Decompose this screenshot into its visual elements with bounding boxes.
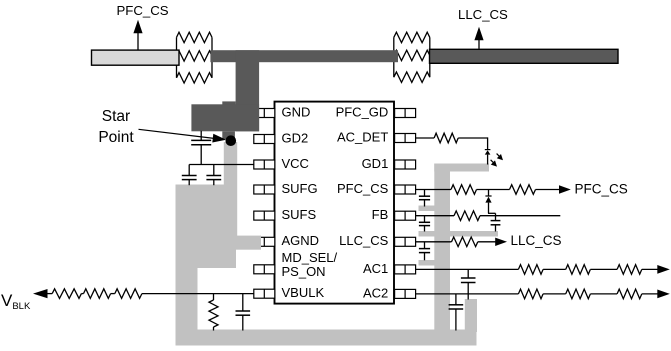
PFC GND pour top bar bbox=[210, 50, 398, 62]
wire R3-R4 bbox=[81, 293, 83, 295]
pin box VCC (left pin 3) bbox=[254, 160, 275, 169]
PFC GND pour block bbox=[191, 104, 259, 131]
wire node A down-jog bbox=[488, 203, 496, 221]
resistor group R2 (3x parallel LLC shunt) bbox=[394, 32, 430, 82]
wire VCC rail bbox=[189, 164, 254, 166]
wire + arrow to V_BLK bbox=[33, 289, 52, 298]
capacitor C10 (AC2 filter) bbox=[449, 294, 464, 331]
svg-text:GND: GND bbox=[282, 104, 311, 119]
resistor R11 (LLC_CS) bbox=[452, 237, 478, 247]
label PFC_CS (top) bbox=[117, 3, 169, 18]
pin label GD1 bbox=[362, 156, 389, 171]
svg-text:SUFG: SUFG bbox=[282, 181, 318, 196]
resistor R3 (VBULK divider) bbox=[52, 289, 81, 299]
wire R8 to node A bbox=[477, 189, 510, 191]
svg-text:GD1: GD1 bbox=[362, 156, 389, 171]
wire + arrow PFC_CS out bbox=[536, 185, 571, 193]
pin box MD (left pin 7) bbox=[254, 265, 275, 274]
pin label PFC_GD bbox=[336, 104, 389, 119]
svg-text:LLC_CS: LLC_CS bbox=[339, 233, 388, 248]
capacitor C7 (FB filter) bbox=[419, 216, 430, 232]
PFC GND pour step bbox=[222, 101, 235, 110]
diode D2 (clamp) bbox=[485, 190, 491, 203]
AGND plane top-right arm bbox=[434, 164, 489, 172]
resistor R9 (PFC_CS out) bbox=[510, 185, 536, 195]
capacitor C2 (VCC decoupling) bbox=[182, 165, 197, 186]
pin label VBULK bbox=[282, 285, 325, 300]
resistor R16 (AC2) bbox=[566, 289, 591, 299]
wire VBULK to pin bbox=[142, 293, 254, 295]
PFC shunt trace bar (left) bbox=[92, 50, 180, 65]
pin label GND bbox=[282, 104, 311, 119]
label LLC_CS (top) bbox=[458, 7, 508, 22]
capacitor C5 (PFC_CS filter) bbox=[419, 190, 430, 207]
svg-text:GD2: GD2 bbox=[282, 130, 309, 145]
pin label SUFG bbox=[282, 181, 318, 196]
label LLC_CS (right) bbox=[511, 233, 562, 248]
LED D1 (opto photodiode) bbox=[485, 150, 491, 165]
node star point junction dot bbox=[226, 135, 237, 146]
pin box GND (left pin 1) bbox=[254, 109, 275, 118]
svg-text:PFC_GD: PFC_GD bbox=[336, 104, 389, 119]
wire + arrow LLC_CS out bbox=[478, 238, 507, 246]
capacitor C4 (VBULK filter) bbox=[236, 294, 251, 331]
resistor R14 (AC1) bbox=[617, 265, 642, 275]
AGND plane arm to AGND pin bbox=[223, 236, 261, 250]
light arrows at D1 bbox=[491, 154, 503, 167]
resistor R8 (PFC_CS) bbox=[451, 185, 477, 195]
leader arrow to star point bbox=[139, 129, 227, 142]
pin label SUFS bbox=[282, 207, 317, 222]
wire LLC_CS pin bbox=[416, 241, 452, 243]
svg-text:PS_ON: PS_ON bbox=[282, 264, 326, 279]
resistor R13 (AC1) bbox=[566, 265, 591, 275]
pin box PFC_CS (right pin 13) bbox=[395, 185, 416, 194]
label Star Point bbox=[98, 108, 134, 146]
svg-text:AC1: AC1 bbox=[363, 261, 388, 276]
wire AC_DET to opto bbox=[458, 137, 487, 149]
pin box AC2 (right pin 9) bbox=[395, 289, 416, 298]
pin box VBULK (left pin 8) bbox=[254, 289, 275, 298]
AGND stub at LLC_CS cap bbox=[419, 260, 436, 266]
resistor R12 (AC1) bbox=[518, 265, 543, 275]
pin box SUFS (left pin 5) bbox=[254, 211, 275, 220]
svg-text:VCC: VCC bbox=[282, 156, 309, 171]
label PFC_CS (right) bbox=[575, 181, 628, 196]
AGND plane main pour bbox=[176, 185, 237, 269]
pin box AC_DET (right pin 15) bbox=[395, 134, 416, 143]
capacitor C8 (LLC_CS filter) bbox=[419, 242, 430, 260]
wire PFC_CS pin bbox=[416, 189, 451, 191]
AGND stub at PFC_CS cap bbox=[419, 206, 436, 212]
pin box GD2 (left pin 2) bbox=[254, 135, 275, 144]
pin box SUFG (left pin 4) bbox=[254, 185, 275, 194]
svg-text:LLC_CS: LLC_CS bbox=[458, 7, 508, 22]
pin label LLC_CS bbox=[339, 233, 388, 248]
svg-text:Point: Point bbox=[98, 129, 134, 146]
capacitor C3 (VCC decoupling) bbox=[206, 165, 221, 186]
svg-text:AC2: AC2 bbox=[363, 285, 388, 300]
pin box PFC_GD (right pin 16) bbox=[395, 109, 416, 118]
pin box FB (right pin 12) bbox=[395, 211, 416, 220]
resistor R17 (AC2) bbox=[617, 289, 642, 299]
pin box GD1 (right pin 14) bbox=[395, 160, 416, 169]
svg-text:MD_SEL/: MD_SEL/ bbox=[282, 250, 338, 265]
PFC GND pour vertical bar bbox=[236, 50, 260, 131]
pin label GD2 bbox=[282, 130, 309, 145]
pin label AC1 bbox=[363, 261, 388, 276]
svg-text:Star: Star bbox=[102, 108, 130, 125]
svg-text:LLC_CS: LLC_CS bbox=[511, 233, 562, 248]
resistor R5 (VBULK divider) bbox=[115, 289, 142, 299]
AGND plane column under star point bbox=[224, 142, 237, 240]
PFC GND pour stub to star point bbox=[222, 131, 235, 139]
pin box AGND (left pin 6) bbox=[254, 237, 275, 246]
AGND plane lower column bbox=[176, 267, 198, 332]
wire R13-R14 bbox=[590, 268, 617, 270]
op-amp U1 controller IC body bbox=[275, 102, 395, 304]
AGND column at AC1 cap bbox=[465, 299, 477, 332]
wire R4-R5 bbox=[111, 293, 115, 295]
resistor group R1 (3x parallel PFC shunt) bbox=[177, 32, 213, 83]
capacitor C1 (star point) bbox=[191, 131, 211, 165]
svg-text:VBULK: VBULK bbox=[282, 285, 325, 300]
wire FB line bbox=[480, 215, 560, 217]
label V_BLK bbox=[1, 291, 31, 312]
wire R16-R17 bbox=[590, 293, 617, 295]
pin label FB bbox=[372, 207, 389, 222]
pin label VCC bbox=[282, 156, 309, 171]
capacitor C6 (FB clamp cap) bbox=[491, 221, 501, 232]
wire + arrow AC2 out bbox=[642, 290, 670, 299]
node PFC_CS sense arrow bbox=[133, 20, 142, 50]
svg-text:PFC_CS: PFC_CS bbox=[337, 181, 389, 196]
wire AC2 pin bbox=[416, 293, 519, 295]
svg-text:PFC_CS: PFC_CS bbox=[575, 181, 628, 196]
svg-text:SUFS: SUFS bbox=[282, 207, 317, 222]
resistor R15 (AC2) bbox=[518, 289, 543, 299]
resistor R10 (FB) bbox=[454, 211, 480, 221]
pin box AC1 (right pin 10) bbox=[395, 265, 416, 274]
pin label AGND bbox=[282, 233, 320, 248]
resistor R6 (VBULK lower divider) bbox=[209, 294, 218, 331]
wire R15-R16 bbox=[543, 293, 566, 295]
svg-text:AC_DET: AC_DET bbox=[337, 129, 388, 144]
resistor R7 (AC_DET) bbox=[434, 133, 458, 143]
pin label MD_SEL/PS_ON bbox=[282, 250, 338, 279]
LLC shunt trace bar (right) bbox=[430, 49, 619, 63]
svg-text:FB: FB bbox=[372, 207, 389, 222]
capacitor C9 (AC1 filter) bbox=[461, 269, 476, 299]
wire AC1 pin bbox=[416, 268, 519, 270]
svg-text:PFC_CS: PFC_CS bbox=[117, 3, 169, 18]
svg-text:AGND: AGND bbox=[282, 233, 320, 248]
pin box LLC_CS (right pin 11) bbox=[395, 237, 416, 246]
AGND plane right column bbox=[434, 164, 450, 333]
resistor R4 (VBULK divider) bbox=[84, 289, 111, 299]
wire AC_DET pin bbox=[416, 137, 435, 139]
wire + arrow AC1 out bbox=[642, 265, 670, 274]
pin label AC_DET bbox=[337, 129, 388, 144]
AGND arm under FB row bbox=[419, 231, 499, 237]
pin label PFC_CS bbox=[337, 181, 389, 196]
wire R12-R13 bbox=[543, 268, 566, 270]
pin label AC2 bbox=[363, 285, 388, 300]
wire FB pin bbox=[416, 215, 454, 217]
AGND plane bottom bar bbox=[176, 330, 477, 346]
node LLC_CS sense arrow bbox=[474, 27, 483, 49]
